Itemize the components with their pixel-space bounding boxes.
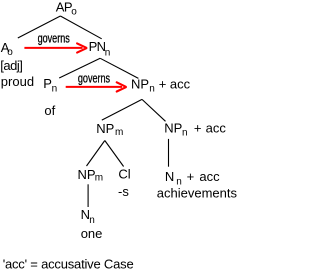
svg-text:AP: AP <box>56 0 72 15</box>
node NP_m (level 4 left) <box>96 121 123 138</box>
branch AP to A (left edge) <box>18 16 61 38</box>
svg-text:'acc' = accusative Case: 'acc' = accusative Case <box>3 256 134 271</box>
svg-text:PN: PN <box>89 39 106 54</box>
branch AP to PN (right edge) <box>60 16 101 39</box>
svg-text:governs: governs <box>78 72 111 86</box>
svg-text:acc: acc <box>170 76 191 91</box>
node N_n + acc <box>165 169 220 187</box>
svg-text:n: n <box>52 84 58 95</box>
svg-text:NP: NP <box>164 120 182 135</box>
svg-text:acc: acc <box>199 169 220 184</box>
svg-text:Cl: Cl <box>118 167 130 182</box>
branch NP to NPn (right edge) <box>142 99 166 121</box>
branch PN to NP (right edge) <box>100 58 138 78</box>
svg-text:n: n <box>105 47 111 58</box>
svg-text:m: m <box>95 172 103 183</box>
node PN_n <box>89 39 111 58</box>
svg-text:+: + <box>187 169 195 184</box>
branch PN to P (left edge) <box>59 58 100 78</box>
arrow governs 2 (red, P governs NP) <box>66 82 126 91</box>
svg-text:n: n <box>149 84 155 95</box>
svg-text:achievements: achievements <box>157 186 238 201</box>
branch NPn to Nn (vertical) <box>168 139 170 167</box>
svg-text:NP: NP <box>131 76 149 91</box>
svg-text:n: n <box>182 128 188 139</box>
svg-text:governs: governs <box>38 32 71 46</box>
svg-text:N: N <box>165 169 174 184</box>
svg-text:m: m <box>115 127 123 138</box>
svg-text:+: + <box>194 120 202 135</box>
branch NPm to Cl (right edge) <box>105 141 124 167</box>
svg-text:of: of <box>44 103 55 118</box>
svg-text:o: o <box>71 6 77 17</box>
node AP_o (root) <box>56 0 77 17</box>
svg-text:proud: proud <box>1 74 34 89</box>
node NP_n + acc (level 4 right) <box>164 120 226 138</box>
svg-text:NP: NP <box>96 121 114 136</box>
node N_n <box>81 207 95 226</box>
svg-text:o: o <box>7 47 13 58</box>
svg-text:+: + <box>159 76 167 91</box>
svg-text:n: n <box>89 215 95 226</box>
arrow governs 1 (red, A governs PN) <box>24 43 86 52</box>
svg-text:acc: acc <box>206 120 227 135</box>
node NP_m (level 5) <box>78 167 104 184</box>
svg-text:-s: -s <box>118 184 129 199</box>
node A_o <box>1 40 14 58</box>
node P_n <box>43 76 57 95</box>
branch NPm to N (vertical) <box>87 184 89 207</box>
svg-text:NP: NP <box>78 167 96 182</box>
svg-text:[adj]: [adj] <box>0 58 22 73</box>
branch NP to NPm (left edge) <box>102 99 142 120</box>
branch NPm to NPm (left edge) <box>87 141 105 167</box>
svg-text:one: one <box>81 226 103 241</box>
node NP_n + acc (level 3) <box>131 76 191 94</box>
